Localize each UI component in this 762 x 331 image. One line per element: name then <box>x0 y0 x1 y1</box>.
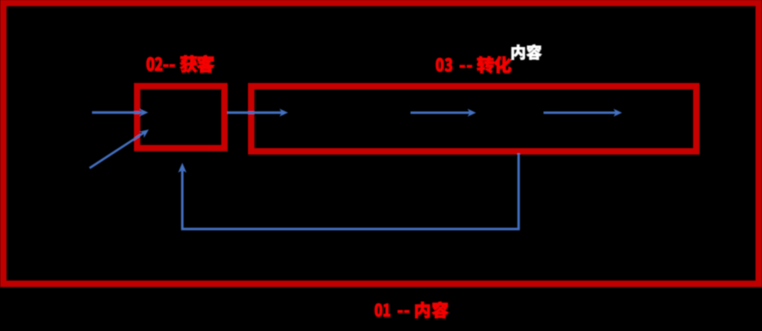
label 03--转化 <box>436 56 511 73</box>
wire: right arrow inside box 03 <box>544 109 623 117</box>
wire: arrow box 02 to box 03 <box>227 109 288 117</box>
wire: diagonal arrow into box 02 <box>90 130 149 169</box>
label 内容 (white) <box>512 45 542 60</box>
label 02--获客 <box>147 55 215 73</box>
box 02 (small square, 获客) <box>137 86 224 148</box>
box 03 (wide rectangle, 转化) <box>251 86 696 151</box>
wire: feedback loop from box 03 bottom to box 02 bottom <box>178 154 518 230</box>
label 01--内容 <box>375 302 448 319</box>
wire: middle arrow inside box 03 <box>411 109 477 117</box>
wire: entry arrow into box 02 <box>92 109 148 117</box>
